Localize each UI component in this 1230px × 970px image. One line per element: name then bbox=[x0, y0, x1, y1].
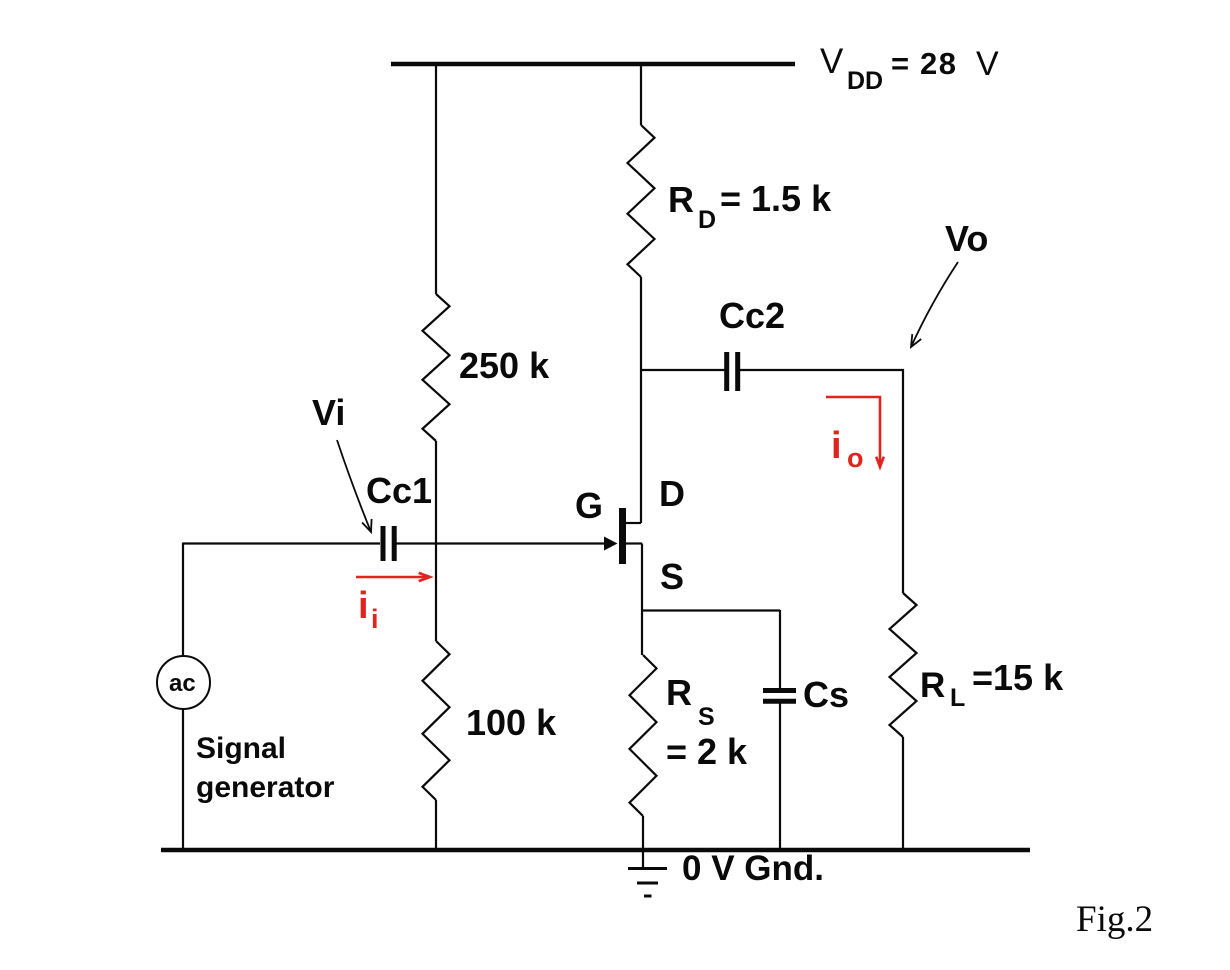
svg-text:Vi: Vi bbox=[312, 392, 345, 433]
svg-text:= 2 k: = 2 k bbox=[666, 731, 748, 772]
wire: RD bottom to drain (through Cc2 node) bbox=[640, 277, 642, 523]
svg-text:D: D bbox=[698, 206, 716, 234]
svg-text:100 k: 100 k bbox=[466, 702, 557, 743]
svg-text:= 1.5 k: = 1.5 k bbox=[720, 178, 832, 219]
svg-text:i: i bbox=[371, 604, 379, 634]
svg-text:V: V bbox=[976, 45, 999, 83]
svg-text:=: = bbox=[891, 46, 909, 81]
svg-text:Cc2: Cc2 bbox=[719, 295, 785, 336]
VDD supply rail (top) bbox=[391, 62, 795, 67]
ac source V1 circle bbox=[157, 656, 210, 709]
label VDD = 28 V bbox=[820, 42, 999, 95]
wire: Cs bottom to ground rail bbox=[779, 703, 781, 850]
svg-text:D: D bbox=[659, 473, 685, 514]
label RS = 2 k bbox=[666, 672, 748, 772]
svg-text:=15 k: =15 k bbox=[972, 657, 1064, 698]
wire: rail to 250k top bbox=[435, 64, 437, 294]
svg-text:o: o bbox=[847, 443, 864, 473]
wire: Cc2 to output node bbox=[740, 369, 904, 371]
wire: source lead down to RS / Cs node bbox=[641, 544, 643, 656]
svg-text:G: G bbox=[575, 485, 603, 526]
ground rail (bottom) bbox=[161, 848, 1030, 853]
wire: 250k bottom to 100k top (bias node) bbox=[435, 441, 437, 641]
wire: gate line corner down to ac source bbox=[182, 543, 184, 657]
svg-text:R: R bbox=[666, 672, 692, 713]
svg-text:ac: ac bbox=[169, 670, 196, 697]
svg-text:250 k: 250 k bbox=[459, 345, 550, 386]
wire: gate line from signal source through Cc1 to gate bbox=[183, 542, 380, 544]
svg-text:DD: DD bbox=[847, 67, 883, 95]
wire: Cs top bbox=[779, 610, 781, 688]
svg-text:Fig.2: Fig.2 bbox=[1076, 899, 1153, 940]
resistor 250k bbox=[423, 294, 450, 441]
wire: rail to RD top bbox=[640, 64, 642, 125]
svg-text:L: L bbox=[950, 684, 965, 712]
label io (red) bbox=[831, 425, 864, 473]
capacitor Cs bbox=[763, 691, 796, 702]
current io arrow (red) bbox=[826, 397, 884, 467]
label RL = 15 k bbox=[920, 657, 1064, 712]
capacitor Cc1 bbox=[383, 526, 394, 561]
resistor RD bbox=[628, 125, 655, 277]
wire: RS bottom to ground rail bbox=[642, 816, 644, 850]
label Signal generator bbox=[196, 732, 335, 804]
arrow Vo to output node bbox=[911, 262, 958, 347]
svg-text:28: 28 bbox=[920, 46, 957, 81]
svg-text:R: R bbox=[920, 666, 945, 705]
current ii arrow (red) bbox=[356, 573, 430, 581]
label ii (red) bbox=[358, 585, 379, 634]
wire: output node down to RL bbox=[902, 369, 904, 593]
svg-text:S: S bbox=[698, 703, 715, 731]
svg-text:R: R bbox=[668, 179, 694, 220]
svg-text:S: S bbox=[660, 556, 684, 597]
svg-text:generator: generator bbox=[196, 771, 335, 804]
wire: Cc1 to gate arrow bbox=[396, 542, 606, 544]
wire: drain node to Cc2 bbox=[641, 369, 725, 371]
wire: source node to Cs bbox=[642, 609, 780, 611]
wire: 100k bottom to ground rail bbox=[435, 800, 437, 850]
Q1 gate arrowhead bbox=[604, 537, 618, 551]
svg-text:Signal: Signal bbox=[196, 732, 286, 765]
arrow Vi to Cc1 bbox=[337, 440, 372, 532]
wire: ground stub below rail bbox=[642, 850, 644, 868]
resistor RS bbox=[630, 655, 657, 816]
svg-text:V: V bbox=[820, 42, 844, 81]
label RD = 1.5 k bbox=[668, 178, 832, 234]
wire: ac source to ground rail bbox=[182, 709, 184, 850]
svg-text:i: i bbox=[358, 585, 369, 627]
svg-text:Cs: Cs bbox=[803, 674, 849, 715]
wire: RL bottom to ground rail bbox=[902, 737, 904, 850]
svg-text:0 V Gnd.: 0 V Gnd. bbox=[682, 849, 824, 888]
svg-text:i: i bbox=[831, 425, 842, 467]
svg-text:Cc1: Cc1 bbox=[366, 470, 432, 511]
resistor RL bbox=[890, 593, 917, 737]
transistor Q1 (JFET) channel bar bbox=[619, 508, 626, 564]
svg-text:Vo: Vo bbox=[945, 218, 988, 259]
Q1 source lead bbox=[626, 542, 642, 544]
resistor 100k bbox=[423, 641, 450, 800]
ground symbol bbox=[628, 869, 667, 897]
capacitor Cc2 bbox=[727, 352, 738, 391]
Q1 drain lead bbox=[626, 522, 641, 524]
